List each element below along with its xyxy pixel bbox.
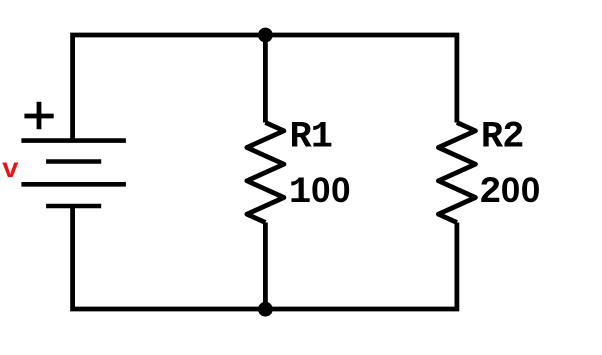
svg-text:100: 100 (289, 171, 351, 214)
label: R1 value 100 (289, 171, 351, 214)
wire: battery positive terminal up and across to top node (73, 35, 266, 141)
battery V: top long plate (21, 138, 126, 143)
node: bottom junction dot (258, 302, 273, 317)
svg-text:R1: R1 (290, 116, 333, 158)
node: top junction dot (258, 28, 273, 43)
battery V: plus sign (24, 102, 53, 129)
battery V: upper short plate (46, 159, 101, 164)
resistor R2 (438, 123, 475, 223)
svg-text:200: 200 (479, 171, 540, 214)
wire: bottom node across to battery negative terminal (73, 206, 266, 309)
label: R1 designator (290, 116, 333, 158)
wire: R1 bottom lead to bottom node (263, 223, 268, 310)
wire: R2 bottom lead down right rail and across to bottom node (265, 223, 457, 310)
label: R2 designator (481, 116, 524, 158)
battery V: label v (2, 155, 19, 186)
resistor R1 (247, 123, 284, 223)
wire: R1 top lead from top node (263, 35, 268, 123)
wire: top node across to R2 and down right rail (265, 35, 457, 123)
battery V: lower long plate (21, 182, 126, 187)
label: R2 value 200 (479, 171, 540, 214)
battery V: bottom short plate (46, 204, 101, 209)
svg-text:v: v (2, 155, 19, 186)
svg-text:R2: R2 (481, 116, 524, 158)
